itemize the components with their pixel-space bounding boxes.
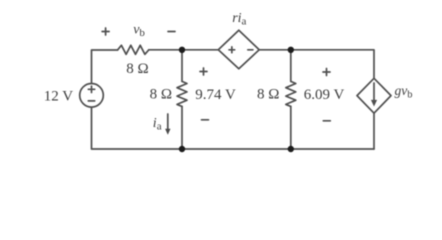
svg-text:ria: ria [232, 11, 246, 28]
polarity minus above R1 [168, 31, 175, 33]
polarity minus branch1 [202, 119, 209, 121]
svg-text:ia: ia [153, 116, 162, 133]
wire top-left segment [92, 50, 118, 83]
polarity plus branch1 [200, 68, 207, 75]
voltage source V1 circle [80, 84, 104, 108]
wire branch2 upper [290, 50, 292, 82]
wire bottom [92, 107, 375, 149]
dependent voltage source ria diamond [218, 30, 259, 68]
resistor R3 8ohm vertical zigzag [286, 81, 296, 106]
node dot top-left [179, 47, 185, 53]
arrowhead of gvb source [371, 100, 377, 107]
minus sign inside diamond [248, 49, 253, 51]
arrow inside current source [373, 83, 375, 100]
plus sign inside diamond [229, 47, 235, 53]
minus inside source [88, 100, 94, 102]
dependent current source gvb diamond [357, 78, 391, 113]
current arrow ia [167, 114, 169, 129]
wire branch2 lower [290, 106, 292, 149]
node dot bottom-right [288, 146, 294, 152]
svg-text:vb: vb [133, 22, 145, 39]
svg-text:8 Ω: 8 Ω [126, 61, 148, 77]
resistor R1 8ohm horizontal zigzag [118, 45, 149, 54]
wire branch1 upper [181, 50, 183, 82]
svg-text:8 Ω: 8 Ω [257, 87, 279, 103]
wire right lower [373, 113, 375, 149]
svg-text:9.74 V: 9.74 V [195, 87, 236, 103]
plus inside source [88, 86, 94, 92]
svg-text:6.09 V: 6.09 V [304, 87, 345, 103]
wire branch1 lower [181, 106, 183, 149]
svg-text:gvb: gvb [395, 83, 413, 101]
node dot top-right [288, 47, 294, 53]
node dot bottom-left [179, 146, 185, 152]
arrowhead of ia [165, 129, 170, 135]
polarity plus branch2 [323, 69, 330, 76]
resistor R2 8ohm vertical zigzag [177, 81, 187, 106]
wire top middle [149, 49, 219, 51]
polarity minus branch2 [323, 120, 330, 122]
polarity plus above R1 [102, 28, 109, 35]
wire top right [259, 50, 374, 79]
svg-text:8 Ω: 8 Ω [150, 87, 172, 103]
svg-text:12 V: 12 V [44, 89, 73, 105]
